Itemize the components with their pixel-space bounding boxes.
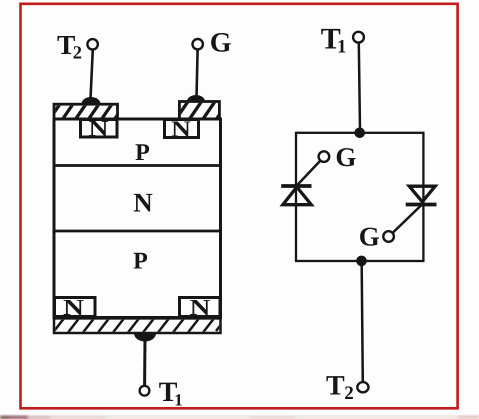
- svg-text:2: 2: [344, 383, 354, 404]
- junction line N/P: [53, 230, 223, 233]
- svg-text:N: N: [133, 188, 153, 218]
- N+ well bottom-right: [180, 295, 221, 320]
- wire T2 lead: [91, 50, 93, 100]
- svg-text:N: N: [89, 116, 109, 141]
- svg-text:1: 1: [337, 37, 347, 58]
- scan artifact band at bottom: [0, 415, 479, 419]
- terminal label T2 (equivalent circuit): [326, 371, 354, 404]
- svg-text:T: T: [326, 371, 345, 402]
- svg-text:G: G: [359, 222, 380, 252]
- terminal circle T2: [87, 39, 97, 49]
- svg-text:1: 1: [174, 391, 183, 410]
- metal contact T1 bottom (hatched): [53, 318, 225, 333]
- terminal circle G: [193, 39, 203, 49]
- metal contact G (hatched): [176, 102, 229, 120]
- svg-text:G: G: [210, 27, 232, 58]
- wire T1 lead: [143, 338, 146, 385]
- junction line P/N: [53, 164, 223, 167]
- thyristor SCR1 (left branch): [281, 186, 311, 205]
- N+ well top-right (gate): [165, 116, 199, 141]
- solder bump T1 contact: [134, 334, 156, 342]
- gate terminal circle G (SCR1): [319, 151, 330, 162]
- svg-text:N: N: [171, 116, 191, 141]
- svg-text:P: P: [135, 140, 150, 166]
- wire gate SCR2: [393, 205, 423, 234]
- svg-text:N: N: [63, 295, 84, 320]
- solder bump T2 contact: [82, 97, 101, 104]
- N+ well top-left: [81, 116, 118, 141]
- solder bump G contact: [187, 95, 205, 102]
- wire bottom node to T2: [362, 266, 363, 382]
- wire gate SCR1: [297, 161, 321, 186]
- node junction top: [354, 128, 365, 139]
- terminal circle T2 (circuit): [357, 382, 368, 392]
- svg-text:G: G: [335, 142, 356, 172]
- terminal circle T1: [140, 386, 150, 396]
- node junction bottom: [356, 256, 367, 267]
- terminal label G (left structure): [210, 27, 232, 58]
- svg-text:2: 2: [73, 44, 82, 64]
- N+ well bottom-left: [55, 295, 96, 320]
- loop wires (rectangle): [296, 133, 423, 261]
- svg-text:P: P: [133, 249, 148, 275]
- svg-text:N: N: [190, 295, 211, 320]
- terminal label T1 (equivalent circuit): [321, 23, 347, 58]
- metal contact T2 (hatched): [50, 104, 125, 119]
- wire T1 to top node: [359, 43, 360, 130]
- gate terminal circle G (SCR2): [383, 231, 394, 242]
- device body outline: [54, 119, 221, 318]
- terminal circle T1 (circuit): [353, 32, 364, 43]
- terminal label T2 (left structure): [57, 29, 82, 64]
- thyristor SCR2 (right branch): [406, 186, 437, 204]
- wire G lead: [197, 50, 198, 98]
- terminal label T1 (left structure): [159, 377, 183, 410]
